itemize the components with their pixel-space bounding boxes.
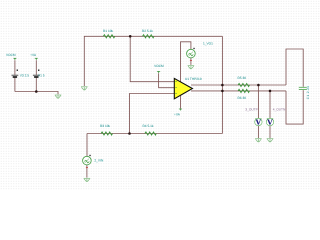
svg-text:VOCM: VOCM bbox=[6, 53, 16, 57]
svg-text:+VA: +VA bbox=[174, 113, 181, 117]
svg-text:V3 2.5: V3 2.5 bbox=[20, 73, 29, 77]
svg-text:R1 10k: R1 10k bbox=[103, 29, 114, 33]
svg-text:U1 THP210: U1 THP210 bbox=[185, 77, 202, 81]
svg-text:C1 2.2n: C1 2.2n bbox=[306, 86, 310, 100]
svg-text:R4 5.1k: R4 5.1k bbox=[143, 124, 154, 128]
svg-text:4_OUTN: 4_OUTN bbox=[273, 107, 286, 111]
svg-text:V1 5: V1 5 bbox=[38, 73, 45, 77]
svg-text:+VA: +VA bbox=[30, 53, 37, 57]
svg-text:3_OUTP: 3_OUTP bbox=[245, 107, 257, 111]
svg-text:VOCM: VOCM bbox=[154, 64, 164, 68]
svg-text:R2 5.1k: R2 5.1k bbox=[142, 29, 153, 33]
svg-text:R5 30: R5 30 bbox=[238, 76, 247, 80]
svg-text:2_VIN: 2_VIN bbox=[94, 158, 104, 162]
svg-text:1_VG1: 1_VG1 bbox=[203, 42, 213, 46]
svg-text:R3 10k: R3 10k bbox=[100, 124, 111, 128]
svg-text:R6 30: R6 30 bbox=[238, 96, 247, 100]
